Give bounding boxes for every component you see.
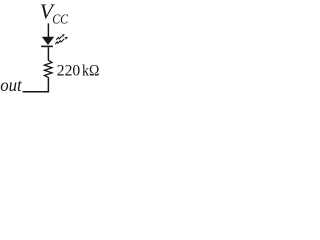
LED light emission arrow 2: [55, 37, 68, 44]
wire from VCC to LED anode: [47, 23, 49, 37]
LED D1 triangle (anode): [42, 37, 54, 45]
svg-text:CC: CC: [52, 12, 69, 27]
LED D1 cathode bar: [41, 46, 53, 48]
LED light emission arrow 1: [56, 34, 65, 40]
wire from resistor bottom to out node: [23, 77, 49, 92]
wire from LED cathode to resistor: [47, 47, 49, 60]
svg-text:220: 220: [57, 60, 80, 79]
svg-text:out: out: [0, 75, 22, 95]
svg-text:kΩ: kΩ: [82, 60, 99, 79]
resistor R1 220kOhm zigzag: [44, 60, 52, 77]
net VCC label: [40, 0, 69, 27]
